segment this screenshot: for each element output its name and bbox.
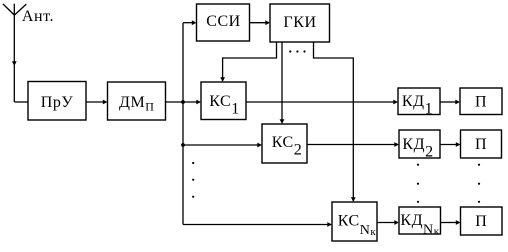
arrow into SSI — [192, 20, 197, 25]
block KS1 box — [201, 82, 246, 120]
block GKI box — [270, 4, 330, 42]
wire trunk to KS2 — [183, 144, 258, 146]
block SSI box — [197, 4, 250, 41]
label P1 — [475, 93, 487, 110]
arrow into GKI — [265, 20, 270, 25]
svg-text:КСNк: КСNк — [338, 213, 377, 239]
svg-text:ПрУ: ПрУ — [41, 94, 74, 111]
wire PrU to DM — [86, 101, 104, 103]
block PrU box — [28, 82, 86, 121]
label KSN — [338, 213, 377, 239]
arrow into KSN — [327, 222, 332, 227]
block KD1 box — [398, 88, 440, 115]
arrow into KS1 — [196, 100, 201, 105]
block P3 box — [461, 207, 503, 235]
antenna left arm — [3, 4, 15, 15]
arrow into KS1 top — [220, 77, 225, 82]
block P1 box — [460, 88, 502, 115]
svg-text:ДМП: ДМП — [119, 94, 154, 114]
dots KD column — [417, 164, 419, 203]
label DM II — [119, 94, 154, 114]
wire trunk to SSI — [183, 22, 193, 24]
wire trunk vertical — [182, 23, 184, 225]
block KS2 box — [262, 124, 307, 163]
label P2 — [475, 136, 487, 153]
svg-text:КД2: КД2 — [402, 136, 433, 161]
arrow into DM — [103, 100, 108, 105]
dots under GKI — [289, 50, 305, 52]
svg-text:КС2: КС2 — [272, 134, 303, 159]
wire SSI to GKI — [250, 22, 267, 24]
arrow into KD1 — [393, 100, 398, 105]
svg-text:Ант.: Ант. — [22, 8, 54, 25]
svg-text:П: П — [475, 213, 487, 230]
label Ant — [22, 8, 54, 25]
wire GKI to KS2 — [281, 42, 283, 120]
wire antenna to PrU — [14, 101, 28, 103]
block KSN box — [332, 202, 377, 241]
label P3 — [475, 213, 487, 230]
dots left column — [192, 162, 194, 198]
dots P column — [478, 164, 480, 203]
label SSI — [206, 13, 241, 30]
label GKI — [283, 14, 316, 31]
svg-text:КС1: КС1 — [209, 93, 240, 118]
label KD2 — [402, 136, 433, 161]
junction dot at KS2 branch — [181, 143, 185, 147]
block DM box — [108, 82, 166, 120]
wire KD2 to P2 — [440, 144, 457, 146]
arrow into P1 — [455, 100, 460, 105]
arrow into KS2 — [257, 143, 262, 148]
wire KS2 to KD2 — [307, 144, 395, 146]
arrow into P2 — [456, 142, 461, 147]
label KD1 — [402, 93, 433, 118]
wire trunk to KSN — [183, 224, 328, 226]
arrow into P3 — [456, 220, 461, 225]
svg-text:П: П — [475, 93, 487, 110]
antenna right arm — [14, 4, 26, 15]
junction dot at DM output — [181, 100, 185, 104]
wire GKI to KSN — [314, 42, 354, 198]
antenna mast wire — [13, 4, 15, 102]
arrow down on antenna wire — [12, 61, 17, 66]
wire GKI to KS1 — [223, 42, 277, 78]
block KDN box — [399, 207, 441, 234]
arrow into KD2 — [394, 142, 399, 147]
label KS2 — [272, 134, 303, 159]
arrow into KDN — [394, 220, 399, 225]
wire KS1 to KD1 — [246, 101, 394, 103]
wire DM to KS1 — [166, 101, 198, 103]
wire KDN to P3 — [441, 222, 457, 224]
wire KD1 to P1 — [440, 101, 456, 103]
arrow into KS2 top — [280, 119, 285, 124]
svg-text:П: П — [475, 136, 487, 153]
arrow into KSN top — [351, 197, 356, 202]
block KD2 box — [399, 130, 440, 158]
svg-text:ССИ: ССИ — [206, 13, 241, 30]
label KS1 — [209, 93, 240, 118]
block P2 box — [461, 130, 502, 158]
wire KSN to KDN — [377, 222, 395, 224]
label PrU — [41, 94, 74, 111]
label KDN — [400, 212, 439, 238]
svg-text:ГКИ: ГКИ — [283, 14, 316, 31]
